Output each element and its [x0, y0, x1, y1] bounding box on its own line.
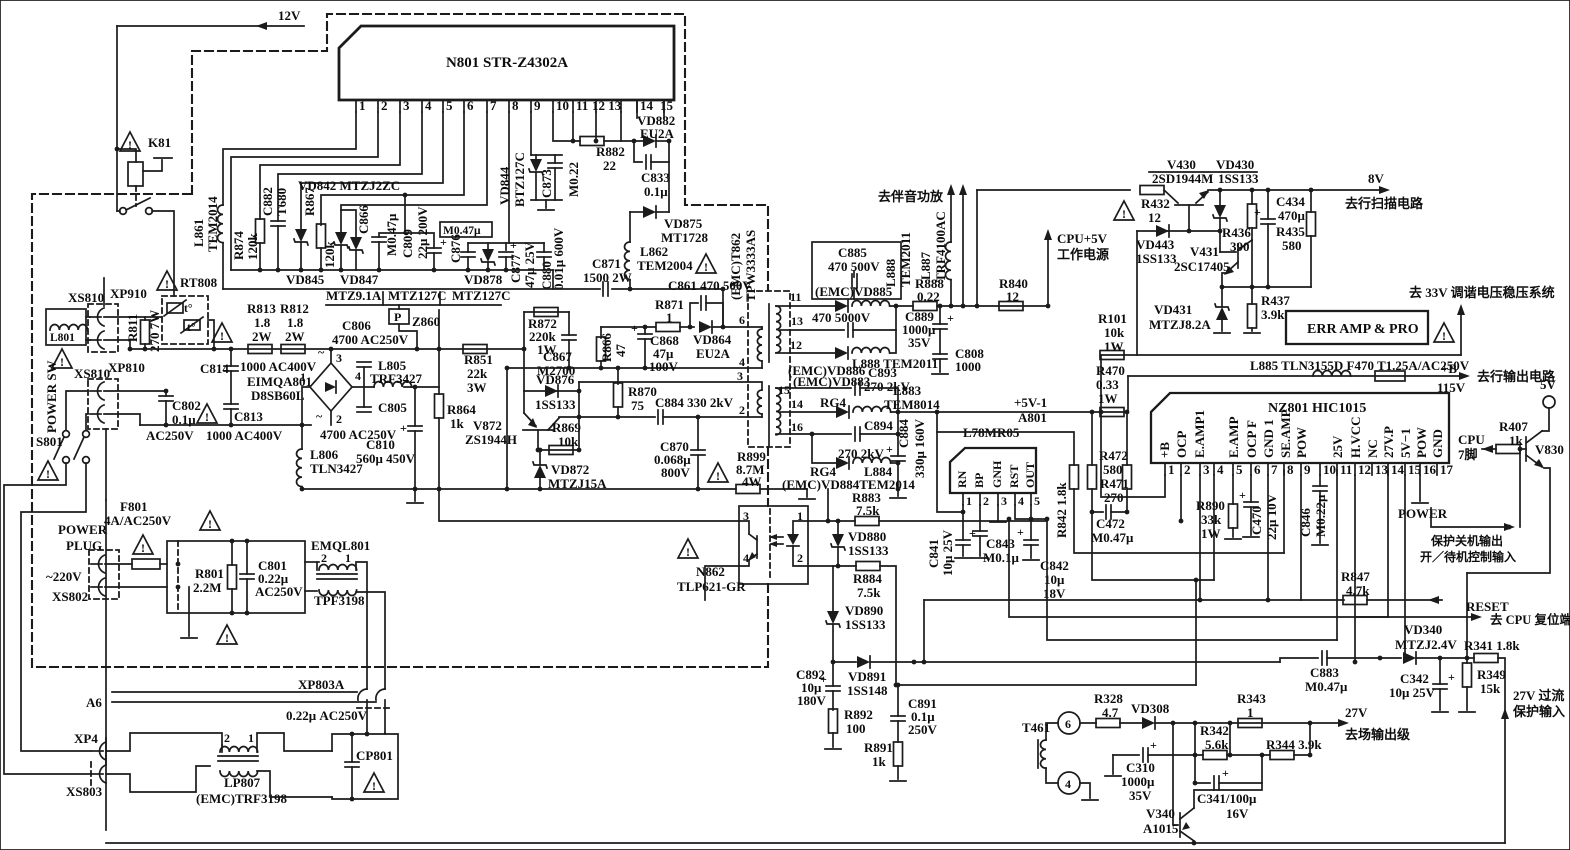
svg-text:2W: 2W: [285, 329, 305, 344]
wire R847 out: [1367, 599, 1442, 601]
svg-text:VD878: VD878: [464, 272, 503, 287]
capacitor C842: [1030, 519, 1032, 540]
wire XP810 pin2: [104, 414, 140, 425]
svg-text:RST: RST: [1007, 465, 1021, 488]
svg-text:12: 12: [1148, 210, 1161, 225]
wire pin10 down: [553, 112, 580, 141]
wire R101 row: [1101, 354, 1461, 356]
svg-text:R349: R349: [1477, 667, 1506, 682]
wire collector row y417: [559, 416, 655, 418]
warning R432: [1114, 201, 1134, 221]
resistor R472: [1091, 412, 1093, 465]
svg-text:13: 13: [1375, 462, 1389, 477]
zener VD847b: [349, 237, 363, 253]
inductor L883: [853, 407, 891, 413]
svg-text:工作电源: 工作电源: [1057, 247, 1109, 262]
svg-text:ERR AMP & PRO: ERR AMP & PRO: [1307, 322, 1419, 337]
svg-text:3: 3: [403, 98, 410, 113]
wire pin11 row: [790, 305, 835, 307]
svg-text:TLP621-GR: TLP621-GR: [677, 579, 746, 594]
svg-text:+: +: [1239, 488, 1246, 502]
svg-text:C893: C893: [868, 365, 897, 380]
wire C876 top: [467, 243, 469, 252]
switch S801 top contact: [63, 431, 70, 438]
bridge rectifier D8SB60L: [310, 363, 352, 411]
svg-text:E.AMP1: E.AMP1: [1192, 410, 1207, 458]
frame bottom C873: [531, 199, 562, 201]
ground GNH: [997, 505, 999, 520]
svg-text:V431: V431: [1190, 244, 1219, 259]
svg-text:GNH: GNH: [990, 460, 1004, 488]
node collector row: [577, 415, 582, 420]
bus A6 line1: [112, 691, 357, 693]
dashed primary boundary top: [192, 14, 768, 290]
wire switch right down to RT808: [152, 211, 174, 296]
svg-text:R407: R407: [1499, 419, 1528, 434]
svg-text:R892: R892: [844, 707, 873, 722]
wire pin13: [780, 329, 790, 331]
svg-text:22μ 10V: 22μ 10V: [1264, 493, 1279, 540]
svg-text:580: 580: [1103, 462, 1123, 477]
warning XS810: [52, 349, 72, 369]
svg-text:M0.22μ: M0.22μ: [1313, 494, 1328, 537]
svg-text:C805: C805: [378, 400, 407, 415]
thermistor box RT808: [162, 296, 208, 344]
node L806 bottom: [300, 487, 305, 492]
svg-text:3: 3: [1203, 462, 1210, 477]
capacitor C810: [414, 387, 416, 426]
svg-text:R812: R812: [280, 301, 309, 316]
svg-text:1000μ: 1000μ: [1121, 774, 1155, 789]
capacitor C889: [939, 306, 941, 324]
wire mid vertical: [506, 368, 508, 489]
wire row y368: [507, 367, 762, 369]
wire nest pin8: [1283, 470, 1285, 553]
wire VD878 top: [487, 243, 489, 250]
warning S801: [38, 461, 58, 481]
svg-text:N801 STR-Z4302A: N801 STR-Z4302A: [446, 55, 568, 71]
node C883: [1378, 656, 1383, 661]
wire S801 pole1 down to XS803: [4, 463, 91, 774]
node R869 left: [536, 448, 541, 453]
wire R344 out: [1294, 754, 1310, 756]
thermistor 1: [167, 303, 183, 313]
bridge diode symbol: [325, 382, 336, 392]
svg-text:LP807: LP807: [224, 775, 261, 790]
wire VD891 row: [833, 661, 856, 663]
node V430 base: [1187, 229, 1192, 234]
wire +B row: [1128, 375, 1464, 377]
capacitor C871: [603, 282, 608, 296]
wire VD340 out: [1416, 657, 1474, 659]
svg-text:560μ 450V: 560μ 450V: [356, 451, 416, 466]
wire pin16 row: [790, 433, 851, 435]
svg-text:VD431: VD431: [1154, 302, 1192, 317]
svg-text:270 7W: 270 7W: [147, 310, 162, 352]
hook XP910 pin2: [90, 331, 104, 349]
NZ801 pin stubs: [1165, 463, 1437, 475]
zener VD878: [481, 249, 495, 265]
svg-text:3.9k: 3.9k: [1261, 307, 1285, 322]
diode VD340: [1403, 652, 1416, 664]
wire C813 bottom: [230, 409, 232, 425]
wire pin7 staircase: [341, 112, 487, 233]
svg-text:14: 14: [1391, 462, 1405, 477]
wire rg4b branch: [812, 434, 836, 463]
connector XP810 dashed: [88, 379, 118, 429]
svg-text:12V: 12V: [278, 8, 301, 23]
switch blade: [126, 198, 150, 210]
svg-text:C861 470 500V: C861 470 500V: [668, 278, 752, 293]
svg-text:5V: 5V: [1540, 377, 1557, 392]
wire pin15 stub: [663, 100, 665, 118]
svg-text:27V: 27V: [1345, 705, 1368, 720]
svg-text:1SS133: 1SS133: [1218, 171, 1259, 186]
wire nest rst: [1009, 519, 1388, 617]
hook XP810 pin2: [90, 405, 104, 423]
svg-text:4: 4: [1018, 494, 1024, 508]
svg-text:TEM8014: TEM8014: [884, 397, 940, 412]
wire pin6 staircase: [321, 112, 464, 225]
capacitor C870: [697, 417, 699, 450]
wire pin4 staircase: [278, 112, 422, 221]
wire R888 out: [937, 305, 1048, 307]
resistor R349: [1466, 658, 1468, 663]
capacitor C434: [1267, 190, 1269, 219]
capacitor C472: [1092, 489, 1103, 512]
wire pinB down: [1101, 412, 1165, 497]
svg-text:VD876: VD876: [536, 372, 575, 387]
svg-text:12: 12: [790, 338, 802, 352]
optocoupler N862 box: [739, 506, 808, 584]
svg-text:V340: V340: [1146, 806, 1175, 821]
chassis thick line: [105, 500, 107, 830]
svg-text:470μ: 470μ: [1278, 208, 1306, 223]
wire C310 node: [1194, 723, 1196, 783]
svg-text:580: 580: [1282, 238, 1302, 253]
wire RT808 out: [208, 320, 214, 349]
svg-text:2.2M: 2.2M: [193, 580, 222, 595]
svg-text:6: 6: [467, 98, 474, 113]
node nest a: [1045, 517, 1050, 522]
svg-text:C833: C833: [641, 170, 670, 185]
svg-text:1k: 1k: [872, 754, 887, 769]
svg-text:+: +: [1150, 738, 1157, 752]
svg-text:AC250V: AC250V: [255, 584, 303, 599]
svg-text:2: 2: [983, 494, 989, 508]
svg-text:XP803A: XP803A: [298, 677, 345, 692]
svg-text:5: 5: [1236, 462, 1243, 477]
wire C873: [554, 155, 556, 163]
wire R869 row: [538, 449, 579, 451]
node K81 top: [115, 147, 120, 152]
svg-text:RT808: RT808: [180, 275, 218, 290]
wire pin12 down: [595, 112, 597, 141]
opto phototransistor: [739, 521, 749, 534]
node C801 bottom: [245, 611, 250, 616]
diode VD891: [857, 656, 870, 668]
svg-text:D8SB60L: D8SB60L: [251, 388, 305, 403]
wire OUT down: [1030, 505, 1032, 519]
resistor R437: [1251, 240, 1253, 304]
svg-text:2: 2: [1184, 462, 1191, 477]
svg-text:M0.22: M0.22: [566, 162, 581, 197]
hook XS803: [92, 765, 106, 783]
wire pin1 staircase: [223, 112, 356, 205]
svg-text:2SC17405: 2SC17405: [1174, 259, 1230, 274]
node VD443 junction: [1218, 229, 1223, 234]
svg-text:4A/AC250V: 4A/AC250V: [104, 513, 172, 528]
svg-text:R842 1.8k: R842 1.8k: [1054, 482, 1069, 538]
svg-text:15: 15: [778, 383, 790, 397]
resistor R891: [894, 742, 903, 766]
wire VD847b bottom: [355, 251, 357, 270]
svg-text:VD430: VD430: [1216, 157, 1254, 172]
svg-text:~: ~: [318, 345, 325, 359]
svg-text:C806: C806: [342, 318, 371, 333]
svg-text:+: +: [886, 442, 893, 456]
switch S801 pole2 blade: [74, 437, 84, 459]
node f2: [176, 585, 181, 590]
switch contact left: [120, 208, 127, 215]
resistor R840: [999, 302, 1023, 311]
svg-text:8: 8: [1287, 462, 1294, 477]
wire power ctrl: [1431, 508, 1509, 527]
wire to VD875: [668, 162, 670, 212]
svg-text:10: 10: [1323, 462, 1336, 477]
fuse F470: [1375, 371, 1405, 381]
opto light arrows: [771, 536, 783, 538]
node bridge top: [329, 347, 334, 352]
wire L884 out: [891, 462, 898, 464]
svg-text:V430: V430: [1167, 157, 1196, 172]
chassis top link: [105, 429, 107, 500]
svg-text:1.8: 1.8: [254, 315, 271, 330]
svg-text:L887: L887: [918, 251, 933, 280]
wire RST out: [1015, 505, 1047, 519]
svg-text:R341 1.8k: R341 1.8k: [1464, 638, 1520, 653]
capacitor C885b: [848, 323, 853, 337]
svg-text:12: 12: [1006, 289, 1019, 304]
node VD882 out: [667, 139, 672, 144]
resistor R882: [580, 137, 604, 146]
node C867 bottom: [567, 366, 572, 371]
wire R328 out: [1120, 722, 1142, 724]
svg-text:0.22μ AC250V: 0.22μ AC250V: [286, 708, 368, 723]
capacitor C846: [1319, 475, 1321, 486]
arrow reset in: [1428, 596, 1439, 604]
hook XS802 pin1: [91, 555, 105, 573]
svg-text:4W: 4W: [742, 474, 762, 489]
bus A6 line2: [112, 701, 376, 703]
divider XP910: [103, 278, 105, 306]
wire box to EMQL top: [305, 561, 319, 563]
wire branch to C809: [405, 233, 434, 248]
svg-text:T680: T680: [274, 188, 289, 216]
capacitor C884s: [658, 410, 663, 424]
NZ801 pin names: [1157, 409, 1445, 458]
svg-text:15k: 15k: [1480, 681, 1501, 696]
svg-text:35V: 35V: [1129, 788, 1152, 803]
wire C880 bottom: [543, 257, 545, 270]
resistor R899: [736, 485, 760, 494]
capacitor C310: [1143, 748, 1148, 762]
diode VD885: [835, 300, 848, 312]
wire R874 bottom: [259, 243, 261, 270]
svg-text:XP810: XP810: [108, 360, 145, 375]
svg-text:A801: A801: [1018, 410, 1047, 425]
svg-text:MTZJ8.2A: MTZJ8.2A: [1149, 317, 1211, 332]
svg-text:(EMC)VD885: (EMC)VD885: [815, 284, 893, 299]
svg-text:1: 1: [966, 494, 972, 508]
transistor V340: [1173, 723, 1178, 825]
node main line R872: [522, 347, 527, 352]
wire pin15 row: [790, 387, 851, 389]
svg-text:OCP: OCP: [1174, 431, 1189, 459]
wire T461 links: [1046, 723, 1058, 740]
wire nest pin11: [1336, 470, 1338, 640]
wire R341 out: [1498, 658, 1505, 712]
hook XP810 pin1: [90, 382, 104, 400]
svg-text:CP801: CP801: [356, 748, 393, 763]
N801 pin numbers: [359, 98, 674, 113]
wire reset left drop: [923, 600, 925, 662]
wire R344 to 27V: [1309, 723, 1311, 755]
T461 pin4 circle: [1058, 772, 1080, 794]
svg-text:3: 3: [1001, 494, 1007, 508]
wire VD443 down to R101: [1136, 231, 1138, 355]
svg-text:去伴音功放: 去伴音功放: [878, 189, 944, 204]
svg-text:10μ 25V: 10μ 25V: [940, 529, 955, 576]
resistor R892: [829, 709, 838, 733]
capacitor C809: [427, 248, 441, 253]
node C810 bottom: [413, 487, 418, 492]
node R864 top: [437, 347, 442, 352]
svg-text:1: 1: [345, 551, 351, 565]
svg-text:47μ 25V: 47μ 25V: [522, 241, 537, 288]
wire LP807 out top: [221, 745, 223, 752]
wire R883 out: [879, 520, 1047, 522]
wire R872 row: [523, 312, 525, 391]
svg-text:120k: 120k: [245, 233, 260, 261]
svg-text:L888: L888: [883, 258, 898, 287]
connector XS802 dashed: [89, 550, 119, 599]
warning N862: [678, 539, 698, 559]
resistor R842: [1070, 465, 1079, 489]
warning C813: [197, 404, 217, 424]
resistor R435: [1310, 190, 1312, 212]
svg-text:R436: R436: [1222, 225, 1251, 240]
resistor R883: [855, 517, 879, 526]
wire C877 top: [505, 243, 507, 250]
svg-text:RESET: RESET: [1466, 599, 1509, 614]
node C861 left: [688, 325, 693, 330]
wire pin3 eamp1: [1199, 475, 1201, 600]
svg-text:R470: R470: [1096, 363, 1125, 378]
node R801 bottom: [230, 611, 235, 616]
switch contact right: [146, 208, 153, 215]
svg-text:+: +: [969, 526, 976, 540]
capacitor C884e: [897, 412, 899, 456]
svg-text:3: 3: [737, 369, 743, 383]
wire C341 out: [1219, 755, 1262, 783]
svg-text:0.22: 0.22: [917, 289, 940, 304]
wire EMQL out top: [356, 562, 367, 689]
wire pin12: [776, 352, 790, 354]
wire 27V protect riser: [1504, 712, 1506, 843]
wire C884s right: [663, 416, 762, 418]
wire Z860: [399, 324, 417, 349]
wire R471 top: [1126, 412, 1128, 465]
ground C810: [414, 489, 416, 501]
svg-text:C871: C871: [592, 256, 621, 271]
node pin11: [571, 139, 576, 144]
svg-text:VD890: VD890: [845, 603, 883, 618]
svg-text:C883: C883: [1310, 665, 1339, 680]
resistor R847: [1343, 596, 1367, 605]
svg-text:16V: 16V: [1226, 806, 1249, 821]
transformer LP807 core: [218, 755, 258, 757]
svg-text:C472: C472: [1096, 516, 1125, 531]
capacitor C880: [537, 252, 551, 257]
svg-text:VD891: VD891: [848, 669, 886, 684]
svg-text:VD864: VD864: [693, 332, 732, 347]
capacitor L805 top: [357, 362, 371, 367]
capacitor C341: [1195, 782, 1210, 784]
svg-text:C877: C877: [508, 254, 523, 283]
wire VD891 out: [870, 661, 1280, 663]
svg-text:R811: R811: [125, 314, 140, 342]
wire L888b out: [890, 330, 896, 353]
svg-text:t°: t°: [187, 322, 196, 334]
wire C814: [230, 349, 232, 366]
wire cpu reset: [1355, 616, 1476, 618]
relay contact ground: [154, 157, 172, 159]
capacitor C894: [855, 427, 860, 441]
wire box to EMQL bottom: [305, 590, 317, 592]
resistor R101: [1100, 351, 1124, 360]
wire R883 R884 feed: [827, 489, 829, 521]
wire pin15: [776, 387, 790, 389]
T862 primary coil bottom: [757, 390, 762, 414]
wire V830 emitter down: [1467, 468, 1550, 573]
arrow cpu7: [1482, 445, 1493, 453]
wire bridge top: [330, 349, 332, 363]
resistor R341: [1474, 654, 1498, 663]
svg-text:POW: POW: [1294, 427, 1309, 458]
svg-text:4: 4: [739, 355, 745, 369]
node bridge left: [300, 423, 305, 428]
wire bridge bottom: [330, 411, 332, 425]
node R883 feed: [826, 519, 831, 524]
wire 8V rail: [977, 189, 1130, 191]
capacitor C868: [644, 327, 646, 334]
svg-text:4: 4: [1217, 462, 1224, 477]
svg-text:2: 2: [739, 403, 745, 417]
svg-text:9: 9: [1304, 462, 1311, 477]
node pin6 branch: [403, 193, 408, 198]
diode RG4b: [836, 457, 849, 469]
svg-text:R891: R891: [864, 740, 893, 755]
warning T862: [696, 254, 716, 274]
wire nest pin4: [1213, 475, 1215, 580]
wire L861 bottom to bus: [222, 243, 224, 289]
wire opto pin1 row: [808, 520, 855, 522]
resistor R813: [248, 345, 272, 354]
wire K81 coil top: [117, 149, 136, 162]
resistor R811: [141, 320, 150, 344]
zener VD890: [832, 566, 834, 611]
